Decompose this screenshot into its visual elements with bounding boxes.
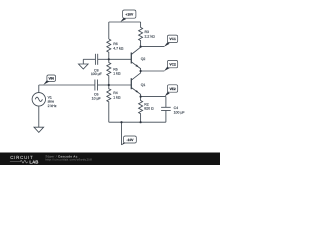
flag VC1 <box>164 35 178 47</box>
svg-text:100 μF: 100 μF <box>174 111 185 115</box>
svg-text:2 kHz: 2 kHz <box>48 104 57 108</box>
wire top rail <box>109 21 141 23</box>
svg-text:R4: R4 <box>113 91 118 95</box>
svg-text:Q1: Q1 <box>141 83 146 87</box>
svg-text:10 μF: 10 μF <box>92 96 101 100</box>
wire R6 top lead <box>108 22 110 39</box>
node A (R6/R5/C8/Q2 base) <box>83 58 95 60</box>
watermark bar <box>0 153 220 166</box>
flag VC2 <box>164 60 178 71</box>
flag -10V <box>121 136 136 145</box>
junction dots <box>108 46 142 124</box>
svg-text:100 μF: 100 μF <box>91 72 102 76</box>
svg-text:Q2: Q2 <box>141 57 146 61</box>
wire -10V stub <box>121 122 123 145</box>
capacitor C4 <box>161 97 171 123</box>
transistor Q1 <box>131 71 140 97</box>
resistor R4 <box>107 85 111 122</box>
node B (R5/R4/C6/Q1 base) <box>109 84 132 86</box>
svg-text:4.7 kΩ: 4.7 kΩ <box>113 47 124 51</box>
svg-text:VC1: VC1 <box>169 37 176 41</box>
resistor R3 <box>139 22 143 47</box>
wire bottom rail <box>109 121 166 123</box>
wire Q2 base <box>109 58 132 60</box>
svg-text:http://circuitlab.com/c6wdu258: http://circuitlab.com/c6wdu258 <box>45 158 92 162</box>
svg-text:R6: R6 <box>113 42 118 46</box>
transistor Q2 <box>131 47 140 71</box>
wire VC2 <box>141 70 165 72</box>
svg-text:VC2: VC2 <box>169 62 176 66</box>
svg-text:2.2 kΩ: 2.2 kΩ <box>145 34 156 38</box>
svg-text:LAB: LAB <box>29 159 38 164</box>
voltage source V1 <box>32 85 45 127</box>
svg-text:R3: R3 <box>145 30 150 34</box>
ground <box>34 127 44 132</box>
resistor R2 <box>139 97 143 123</box>
resistor R6 <box>107 39 111 59</box>
resistor R5 <box>107 59 111 85</box>
wire VIN/C6 <box>39 84 95 86</box>
capacitor C6 <box>95 80 109 91</box>
svg-text:1 kΩ: 1 kΩ <box>113 95 121 99</box>
svg-text:VE2: VE2 <box>169 87 175 91</box>
svg-text:C4: C4 <box>174 106 179 110</box>
flag +10V <box>120 10 135 22</box>
flag VE2 <box>165 85 178 97</box>
svg-text:-10V: -10V <box>127 138 135 142</box>
capacitor C8 <box>95 54 108 65</box>
svg-text:VIN: VIN <box>48 77 54 81</box>
svg-text:V1: V1 <box>48 95 52 99</box>
svg-text:820 Ω: 820 Ω <box>144 107 154 111</box>
wire VE2 <box>141 96 166 98</box>
ground <box>79 59 89 69</box>
wire VC1 <box>141 46 165 48</box>
svg-text:1 kΩ: 1 kΩ <box>113 72 121 76</box>
svg-text:+10V: +10V <box>125 13 134 17</box>
labels <box>48 30 185 115</box>
flag VIN <box>43 75 55 85</box>
svg-text:sine: sine <box>48 100 54 104</box>
